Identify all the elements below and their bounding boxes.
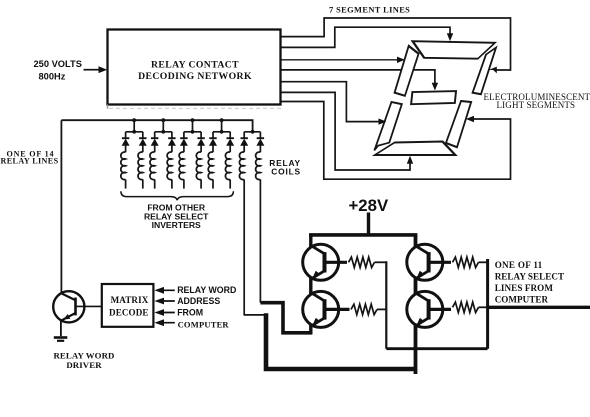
- resistor R1: [349, 257, 375, 267]
- matrix decode input arrows: [154, 287, 174, 326]
- wire R4 to join: [479, 306, 488, 308]
- right transistor column wire: [414, 234, 418, 375]
- svg-text:7 SEGMENT LINES: 7 SEGMENT LINES: [329, 6, 410, 15]
- svg-text:COILS: COILS: [271, 167, 301, 177]
- transistor Q5 bottom-right: [407, 291, 443, 327]
- wire R2 to join: [377, 308, 386, 310]
- base lead Q4: [429, 261, 451, 264]
- left transistor column wire: [309, 234, 312, 335]
- left resistor join vertical wire: [385, 261, 387, 348]
- base lead Q3: [325, 308, 350, 311]
- svg-text:RELAY LINES: RELAY LINES: [1, 157, 59, 166]
- svg-text:RELAY CONTACT: RELAY CONTACT: [151, 59, 239, 70]
- relay coils label: [269, 158, 301, 177]
- one of 11 relay select line: [488, 306, 590, 309]
- relay coil pair 1: [121, 118, 147, 188]
- svg-text:COMPUTER: COMPUTER: [495, 295, 549, 305]
- svg-text:ONE OF 11: ONE OF 11: [495, 260, 543, 270]
- segment F top-left: [392, 46, 423, 96]
- wire R1 to join: [375, 261, 387, 263]
- cross join wire: [386, 347, 487, 350]
- svg-text:250 VOLTS: 250 VOLTS: [34, 59, 82, 69]
- svg-text:ADDRESS: ADDRESS: [177, 296, 220, 306]
- wire segment line 2 to segment A: [281, 27, 450, 47]
- transistor Q2 top-left: [303, 244, 339, 280]
- relay word driver label: [53, 351, 114, 370]
- svg-text:800Hz: 800Hz: [39, 71, 66, 81]
- svg-text:DECODING NETWORK: DECODING NETWORK: [138, 71, 252, 82]
- brace under coils: [121, 191, 233, 200]
- 250 volts 800Hz input label: [34, 59, 108, 81]
- transistor Q3 bottom-left: [303, 291, 339, 327]
- resistor R4: [453, 302, 479, 312]
- relay contact decoding network box: [108, 30, 282, 109]
- svg-text:DRIVER: DRIVER: [66, 360, 102, 370]
- svg-text:LIGHT SEGMENTS: LIGHT SEGMENTS: [497, 100, 576, 110]
- one of 14 relay line (vertical): [60, 120, 62, 293]
- wire segment line 7 to segment C: [281, 102, 511, 180]
- coil wire 1 jog: [244, 314, 266, 316]
- segment E bottom-left: [374, 102, 403, 150]
- svg-text:RELAY WORD: RELAY WORD: [177, 285, 236, 295]
- one of 14 relay lines label: [1, 149, 59, 165]
- right resistor join vertical wire: [486, 259, 489, 349]
- segment G middle: [408, 91, 459, 104]
- wire segment line 1 to segment B: [281, 18, 511, 70]
- relay coil pair 5: [239, 130, 264, 315]
- segment C bottom-right: [445, 101, 473, 147]
- transistor Q4 top-right: [407, 244, 443, 280]
- thick wire: coil 1 to right pair: [266, 313, 416, 369]
- ground: [54, 338, 68, 341]
- resistor R3: [453, 257, 479, 267]
- 7-segment display: [371, 41, 499, 155]
- relay coil pair 2: [150, 118, 176, 188]
- svg-text:INVERTERS: INVERTERS: [152, 220, 201, 230]
- segment D bottom: [375, 142, 460, 156]
- svg-text:COMPUTER: COMPUTER: [178, 320, 230, 330]
- +28V bus wire: [309, 233, 417, 237]
- svg-text:RELAY SELECT: RELAY SELECT: [495, 271, 564, 281]
- svg-text:DECODE: DECODE: [109, 307, 149, 317]
- wire R3 to join: [479, 261, 488, 263]
- wire segment line 5 to segment E: [281, 82, 380, 122]
- base lead Q5: [429, 308, 451, 311]
- segment A top: [407, 41, 496, 59]
- thick wire: coil 2 to left pair: [260, 303, 312, 333]
- relay coil pair 4: [208, 118, 234, 188]
- relay coil pair 3: [179, 118, 205, 188]
- segment B top-right: [472, 48, 497, 95]
- wire segment line 3 to segment F: [281, 59, 398, 61]
- svg-text:+28V: +28V: [349, 196, 389, 215]
- svg-text:MATRIX: MATRIX: [111, 295, 149, 305]
- resistor R2: [351, 304, 377, 314]
- matrix decode box: [102, 284, 154, 327]
- wire segment line 6 to segment D: [281, 92, 410, 170]
- from other relay select inverters label: [144, 202, 209, 230]
- electroluminescent light segments label: [484, 92, 590, 110]
- one of 11 relay select lines from computer label: [495, 260, 564, 305]
- wire segment line 4 to segment G: [281, 70, 435, 84]
- svg-text:LINES FROM: LINES FROM: [495, 283, 554, 293]
- relay word address from computer labels: [177, 285, 236, 330]
- base lead Q2: [325, 261, 348, 264]
- svg-text:FROM: FROM: [177, 308, 203, 318]
- arrowheads into display segments: [379, 33, 497, 164]
- relay line bus: [61, 120, 252, 132]
- +28V feed wire: [367, 213, 370, 237]
- relay word driver transistor Q1: [53, 291, 102, 336]
